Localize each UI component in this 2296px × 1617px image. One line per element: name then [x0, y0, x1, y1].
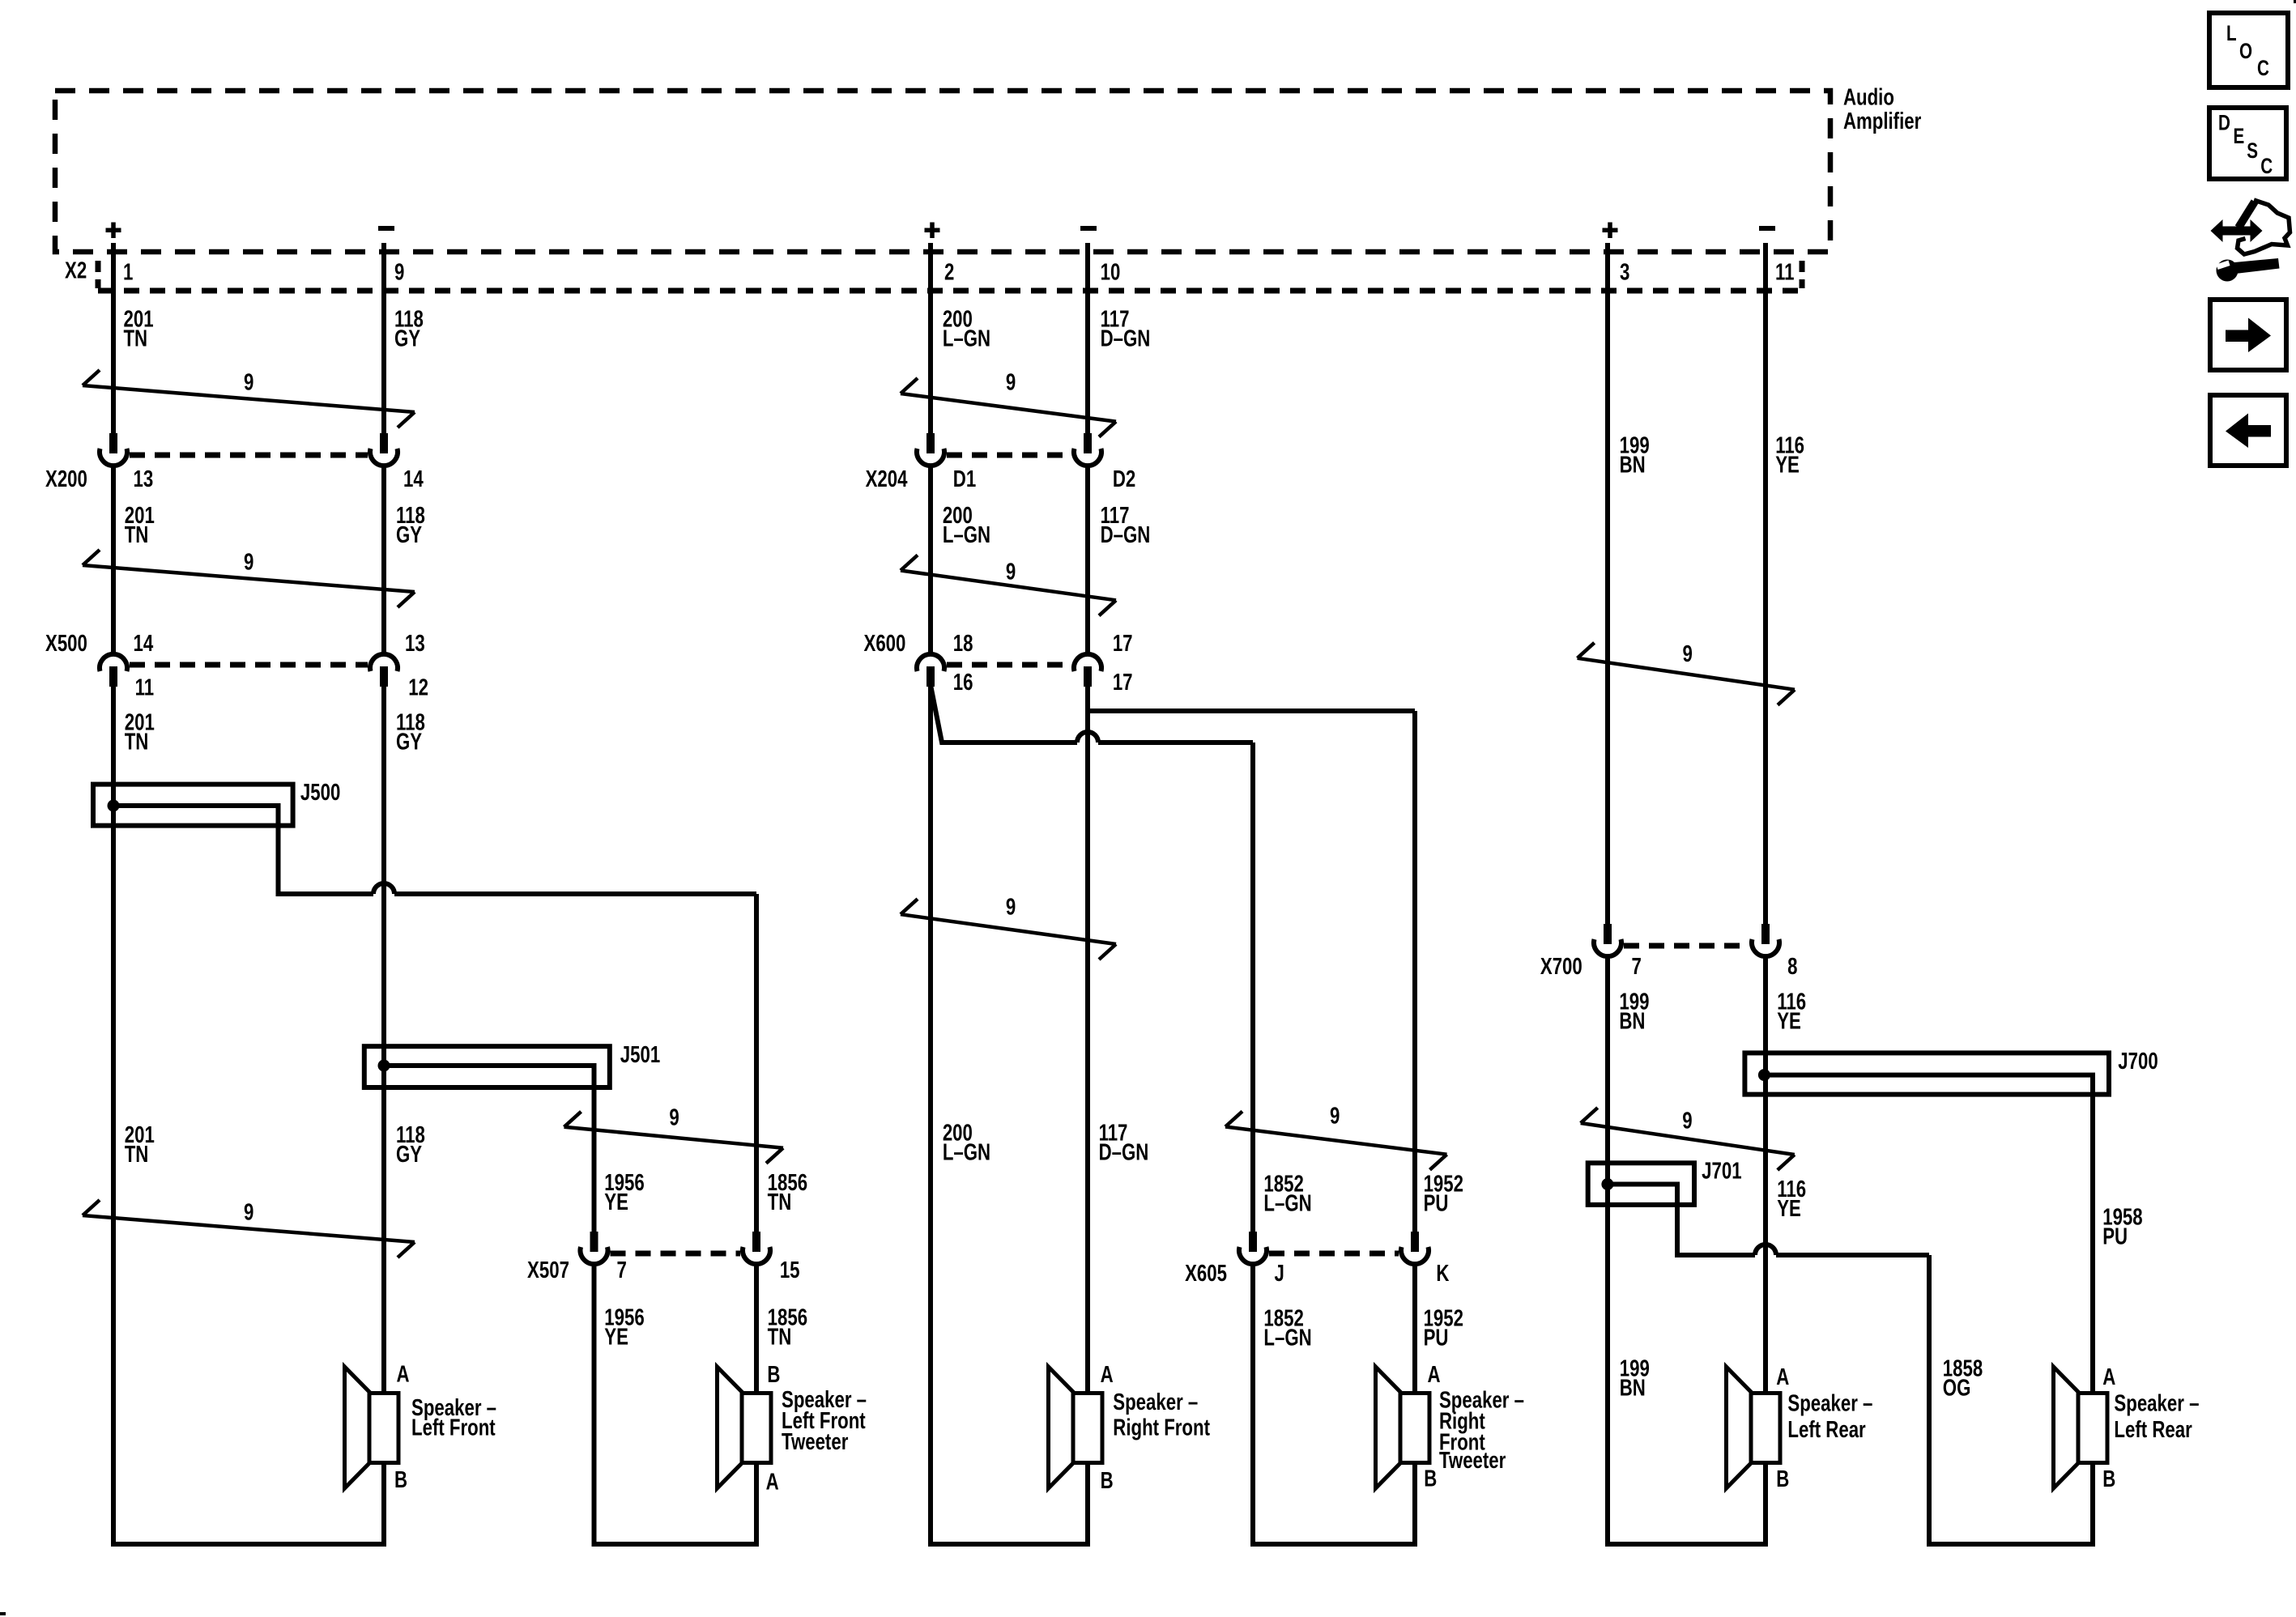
- svg-text:A: A: [397, 1362, 410, 1387]
- pin A: [397, 1362, 410, 1387]
- wire 200 L-GN seg3 + bottom loop to speaker B: [931, 685, 1088, 1544]
- svg-text:Audio: Audio: [1843, 85, 1894, 110]
- label 201 TN: [123, 307, 153, 351]
- label J700: [2118, 1049, 2158, 1074]
- svg-text:TN: TN: [125, 1143, 149, 1168]
- svg-text:Tweeter: Tweeter: [782, 1429, 848, 1454]
- svg-text:L: L: [2226, 22, 2237, 46]
- label 1852 L-GN: [1263, 1306, 1311, 1351]
- twisted pair marker 9 (mid seg1): [901, 370, 1116, 436]
- svg-text:12: 12: [408, 675, 428, 700]
- label X600: [863, 631, 905, 656]
- svg-text:BN: BN: [1619, 1009, 1645, 1034]
- svg-text:PU: PU: [1424, 1191, 1449, 1216]
- icon forward arrow box: [2210, 300, 2286, 370]
- pin 11: [1775, 260, 1794, 285]
- wire 116 YE seg2 (X700 to speaker A): [1763, 955, 1768, 1391]
- pin 7: [617, 1257, 627, 1283]
- speaker - right front tweeter: [1376, 1367, 1430, 1488]
- wire 201 TN seg2 (X200 to X500): [111, 465, 116, 653]
- wire 117 D-GN seg3 (X600 to speaker A): [1085, 685, 1090, 1391]
- connector X600 pin 17 terminal: [1074, 654, 1101, 687]
- label 199 BN: [1620, 433, 1650, 478]
- svg-text:X500: X500: [45, 631, 87, 656]
- connector X507 pin 15 terminal: [743, 1232, 770, 1264]
- svg-text:BN: BN: [1620, 453, 1646, 478]
- svg-text:7: 7: [617, 1257, 627, 1283]
- connector X507 dotted line: [611, 1251, 741, 1257]
- svg-text:E: E: [2234, 124, 2245, 148]
- svg-text:Right Front: Right Front: [1113, 1415, 1210, 1440]
- twisted pair marker 9 (left seg1): [83, 370, 415, 428]
- amp pin + (right front): [925, 223, 940, 239]
- connector X700 pin 7 terminal: [1594, 924, 1621, 956]
- icon connector-view (double arrow, outline, wrench): [2211, 200, 2290, 282]
- svg-text:TN: TN: [125, 523, 149, 548]
- label 1858 OG: [1943, 1356, 1983, 1401]
- svg-text:YE: YE: [604, 1189, 628, 1215]
- svg-text:9: 9: [1006, 370, 1016, 395]
- svg-text:A: A: [1428, 1362, 1441, 1387]
- label 201 TN: [125, 504, 155, 548]
- pin D1: [953, 466, 976, 491]
- svg-text:14: 14: [134, 631, 154, 656]
- amp pin - (left front): [378, 226, 394, 231]
- svg-text:D–GN: D–GN: [1099, 1140, 1149, 1165]
- twisted pair marker 9 (left tweeter): [564, 1105, 784, 1164]
- svg-text:18: 18: [953, 631, 973, 656]
- svg-text:B: B: [767, 1363, 780, 1388]
- label Speaker - Right Front Tweeter: [1439, 1388, 1524, 1474]
- label Speaker - Right Front: [1113, 1389, 1210, 1440]
- wire 117 D-GN seg1 (X2 to X204): [1085, 243, 1090, 433]
- wire 1952 PU seg2 (X605 to tweeter A): [1412, 1263, 1417, 1391]
- pin 17: [1113, 631, 1133, 656]
- svg-text:Left Rear: Left Rear: [1787, 1417, 1865, 1442]
- label 201 TN: [125, 1123, 155, 1168]
- wire 1852 L-GN seg2 + bottom loop to tweeter B: [1253, 1263, 1415, 1544]
- label X700: [1540, 955, 1582, 980]
- label Speaker - Left Front Tweeter: [782, 1387, 867, 1454]
- icon DESC box: [2209, 108, 2286, 179]
- pin 3: [1620, 260, 1629, 285]
- pin 8: [1787, 955, 1797, 980]
- pin K: [1436, 1261, 1450, 1286]
- wire 200 L-GN seg2 (X204 to X600): [928, 465, 933, 653]
- speaker - right front: [1049, 1367, 1103, 1488]
- svg-text:7: 7: [1632, 955, 1642, 980]
- svg-text:9: 9: [244, 1200, 253, 1225]
- svg-text:B: B: [1101, 1468, 1114, 1493]
- pin 13: [134, 466, 154, 491]
- pin 11: [135, 675, 154, 700]
- label X204: [866, 466, 909, 491]
- svg-text:J500: J500: [300, 781, 340, 806]
- svg-text:Speaker –: Speaker –: [2114, 1391, 2199, 1416]
- pin B: [1101, 1468, 1114, 1493]
- label 200 L-GN: [943, 504, 990, 548]
- svg-text:11: 11: [135, 675, 154, 700]
- connector X200 pin 14 terminal: [370, 433, 398, 466]
- wire 1858 OG (J701 tap): [1612, 1185, 1929, 1256]
- svg-text:8: 8: [1787, 955, 1797, 980]
- pin 18: [953, 631, 973, 656]
- connector X200 pin 13 terminal: [100, 433, 127, 466]
- pin A: [2102, 1364, 2115, 1389]
- wire 118 GY seg3 (X500 to speaker A): [381, 685, 386, 1391]
- svg-text:9: 9: [1006, 560, 1016, 585]
- label 199 BN: [1619, 989, 1649, 1034]
- pin 14: [134, 631, 154, 656]
- label 1852 L-GN: [1263, 1172, 1311, 1216]
- svg-text:YE: YE: [604, 1325, 628, 1350]
- svg-text:B: B: [1424, 1466, 1437, 1491]
- pin 10: [1101, 260, 1121, 285]
- label 117 D-GN: [1101, 307, 1151, 351]
- label 117 D-GN: [1099, 1121, 1149, 1165]
- svg-text:10: 10: [1101, 260, 1121, 285]
- svg-text:J: J: [1274, 1261, 1284, 1286]
- svg-text:J501: J501: [620, 1042, 660, 1067]
- svg-text:9: 9: [1330, 1104, 1340, 1129]
- connector X605 pin J terminal: [1239, 1232, 1267, 1264]
- wire 118 GY seg1 (X2 to X200): [381, 243, 386, 433]
- pin 13: [405, 631, 425, 656]
- pin 15: [780, 1257, 800, 1283]
- svg-text:TN: TN: [768, 1325, 792, 1350]
- connector X600 pin 18 terminal: [917, 654, 944, 687]
- twisted pair marker 9 (left seg4): [83, 1200, 415, 1257]
- svg-text:2: 2: [944, 260, 954, 285]
- speaker - left front: [345, 1367, 399, 1488]
- wire J500 tap to 1856 TN: [118, 806, 756, 894]
- splice J701: [1588, 1163, 1694, 1205]
- wire 116 YE seg1 (X2 to X700): [1763, 243, 1768, 924]
- label J500: [300, 781, 340, 806]
- svg-text:X507: X507: [527, 1257, 569, 1283]
- svg-text:9: 9: [394, 260, 404, 285]
- svg-text:PU: PU: [2102, 1224, 2128, 1249]
- svg-text:9: 9: [244, 550, 253, 575]
- connector X204 pin D2 terminal: [1074, 433, 1101, 466]
- wire 1852 L-GN seg1 (to X605): [1250, 743, 1255, 1232]
- twisted pair marker 9 (mid seg3): [901, 895, 1116, 960]
- svg-text:B: B: [2102, 1466, 2115, 1491]
- pin 7: [1632, 955, 1642, 980]
- svg-text:Left Rear: Left Rear: [2114, 1417, 2192, 1442]
- svg-text:9: 9: [1682, 1108, 1692, 1134]
- pin B: [1776, 1466, 1789, 1491]
- label J701: [1702, 1159, 1741, 1184]
- speaker - left front tweeter: [718, 1367, 772, 1488]
- twisted pair marker 9 (right tweeter): [1225, 1104, 1447, 1170]
- amp pin - (rear): [1759, 226, 1775, 231]
- pin A: [1776, 1364, 1789, 1389]
- label Audio Amplifier: [1843, 85, 1921, 134]
- connector X605 dotted line: [1269, 1251, 1399, 1257]
- connector X600 dotted line: [947, 662, 1071, 668]
- pin 9: [394, 260, 404, 285]
- audio amplifier box (dashed): [55, 91, 1830, 252]
- pin 16: [953, 670, 973, 695]
- connector X500 pin 14 terminal: [100, 654, 127, 687]
- svg-text:3: 3: [1620, 260, 1629, 285]
- svg-text:OG: OG: [1943, 1376, 1971, 1401]
- pin D2: [1113, 466, 1135, 491]
- amp pin + (left front): [106, 223, 121, 239]
- svg-text:GY: GY: [396, 1143, 422, 1168]
- splice J500: [93, 785, 293, 826]
- wire 1856 TN seg2 (X507 to tweeter B): [754, 1263, 759, 1391]
- svg-text:D: D: [2218, 111, 2230, 135]
- svg-text:X605: X605: [1185, 1261, 1227, 1286]
- connector X700 dotted line: [1624, 943, 1749, 949]
- svg-text:A: A: [1776, 1364, 1789, 1389]
- svg-text:B: B: [1776, 1466, 1789, 1491]
- svg-text:YE: YE: [1775, 453, 1800, 478]
- label X605: [1185, 1261, 1227, 1286]
- label 118 GY: [394, 307, 424, 351]
- label 1958 PU: [2102, 1205, 2142, 1249]
- label 1952 PU: [1424, 1172, 1463, 1216]
- pin 14: [403, 466, 424, 491]
- wire 1858 OG seg2 + bottom loop to speaker B: [1929, 1255, 2093, 1544]
- svg-text:O: O: [2239, 40, 2252, 64]
- connector X500 pin 13 terminal: [370, 654, 398, 687]
- speaker - left rear (right): [2054, 1367, 2108, 1488]
- label X507: [527, 1257, 569, 1283]
- label X500: [45, 631, 87, 656]
- svg-text:C: C: [2257, 57, 2269, 81]
- svg-text:X200: X200: [45, 466, 87, 491]
- amp pin - (right front): [1080, 226, 1097, 231]
- label 1856 TN: [768, 1170, 807, 1215]
- pin B: [767, 1363, 780, 1388]
- speaker - left rear: [1727, 1367, 1781, 1488]
- svg-text:D1: D1: [953, 466, 976, 491]
- svg-text:GY: GY: [394, 326, 420, 351]
- svg-text:D–GN: D–GN: [1101, 326, 1151, 351]
- label 117 D-GN: [1101, 504, 1151, 548]
- icon LOC box: [2209, 13, 2288, 87]
- label 201 TN: [125, 710, 155, 755]
- connector X507 pin 7 terminal: [581, 1232, 608, 1264]
- pin B: [1424, 1466, 1437, 1491]
- svg-text:Speaker –: Speaker –: [1787, 1391, 1872, 1416]
- pin 17: [1113, 670, 1133, 695]
- svg-text:9: 9: [1683, 642, 1693, 667]
- pin B: [2102, 1466, 2115, 1491]
- label 116 YE: [1775, 433, 1804, 478]
- connector X2 (dotted line): [98, 261, 1802, 291]
- connector X500 dotted line: [130, 662, 368, 668]
- svg-text:9: 9: [1006, 895, 1016, 920]
- svg-text:L–GN: L–GN: [943, 1140, 990, 1165]
- wire 1856 TN seg1 (to X507): [754, 894, 759, 1232]
- label 118 GY: [396, 504, 425, 548]
- svg-text:YE: YE: [1777, 1009, 1801, 1034]
- svg-text:13: 13: [134, 466, 154, 491]
- svg-text:Amplifier: Amplifier: [1843, 109, 1921, 134]
- label J501: [620, 1042, 660, 1067]
- label 116 YE: [1777, 989, 1806, 1034]
- connector X200 dotted line: [130, 453, 368, 458]
- icon back arrow box: [2210, 395, 2286, 466]
- twisted pair marker 9 (rear seg1): [1578, 642, 1795, 705]
- svg-text:A: A: [766, 1470, 779, 1495]
- wire 1952 PU seg1 (to X605): [1412, 711, 1417, 1232]
- pin 2: [944, 260, 954, 285]
- svg-text:D–GN: D–GN: [1101, 523, 1151, 548]
- label 1956 YE: [604, 1305, 644, 1350]
- page corner mark top-right: [2294, 0, 2296, 3]
- label 118 GY: [396, 710, 425, 755]
- label X2: [65, 258, 87, 283]
- svg-text:J701: J701: [1702, 1159, 1741, 1184]
- svg-text:14: 14: [403, 466, 424, 491]
- pin A: [1101, 1362, 1114, 1387]
- svg-text:X2: X2: [65, 258, 87, 283]
- pin A: [1428, 1362, 1441, 1387]
- svg-text:A: A: [1101, 1362, 1114, 1387]
- connector X700 pin 8 terminal: [1752, 924, 1779, 956]
- svg-text:TN: TN: [768, 1189, 792, 1215]
- amp pin + (rear): [1603, 223, 1618, 239]
- splice J700: [1744, 1053, 2109, 1094]
- wire 1952 branch from X600 pin 17: [1088, 709, 1415, 713]
- label 118 GY: [396, 1123, 425, 1168]
- label Speaker - Left Rear: [2114, 1391, 2199, 1443]
- wire 201 TN seg3 + bottom loop to speaker B: [113, 685, 384, 1544]
- svg-text:17: 17: [1113, 631, 1133, 656]
- svg-text:Left Front: Left Front: [411, 1415, 496, 1440]
- wire 117 D-GN seg2 (X204 to X600): [1085, 465, 1090, 653]
- label 199 BN: [1620, 1356, 1650, 1401]
- label 1956 YE: [604, 1170, 644, 1215]
- pin 1: [123, 260, 133, 285]
- wire 199 BN seg2 + bottom loop to speaker B: [1608, 955, 1766, 1544]
- connector X605 pin K terminal: [1401, 1232, 1429, 1264]
- label 1952 PU: [1424, 1306, 1463, 1351]
- svg-text:L–GN: L–GN: [943, 326, 990, 351]
- svg-text:11: 11: [1775, 260, 1794, 285]
- svg-text:Tweeter: Tweeter: [1439, 1448, 1506, 1473]
- pin 12: [408, 675, 428, 700]
- svg-text:YE: YE: [1777, 1196, 1801, 1221]
- svg-text:1: 1: [123, 260, 133, 285]
- svg-text:L–GN: L–GN: [1263, 1326, 1311, 1351]
- wire 118 GY seg2 (X200 to X500): [381, 465, 386, 653]
- svg-text:K: K: [1436, 1261, 1450, 1286]
- wire 1852 branch from X600 pin 16: [931, 685, 1253, 743]
- svg-text:X204: X204: [866, 466, 909, 491]
- svg-text:GY: GY: [396, 730, 422, 755]
- svg-text:B: B: [394, 1467, 407, 1492]
- label X200: [45, 466, 87, 491]
- twisted pair marker 9 (rear seg2): [1581, 1108, 1795, 1170]
- pin B: [394, 1467, 407, 1492]
- svg-text:GY: GY: [396, 523, 422, 548]
- pin J: [1274, 1261, 1284, 1286]
- twisted pair marker 9 (left seg2): [83, 550, 415, 607]
- svg-text:A: A: [2102, 1364, 2115, 1389]
- svg-text:BN: BN: [1620, 1376, 1646, 1401]
- connector X204 dotted line: [947, 453, 1071, 458]
- wire 1958 PU (J700 tap to speaker A): [1770, 1075, 2093, 1391]
- twisted pair marker 9 (mid seg2): [901, 555, 1116, 616]
- svg-text:13: 13: [405, 631, 425, 656]
- pin A: [766, 1470, 779, 1495]
- svg-text:9: 9: [244, 370, 253, 395]
- wire 1956 YE seg1 (J501 to X507): [389, 1066, 594, 1232]
- svg-text:D2: D2: [1113, 466, 1135, 491]
- svg-text:X700: X700: [1540, 955, 1582, 980]
- svg-text:L–GN: L–GN: [943, 523, 990, 548]
- label 1856 TN: [768, 1305, 807, 1350]
- svg-text:15: 15: [780, 1257, 800, 1283]
- wire 199 BN seg1 (X2 to X700): [1605, 243, 1610, 924]
- label 116 YE: [1777, 1177, 1806, 1221]
- label Speaker - Left Rear: [1787, 1391, 1872, 1443]
- svg-text:TN: TN: [123, 326, 147, 351]
- label 200 L-GN: [943, 307, 990, 351]
- wire 201 TN seg1 (X2 to X200): [111, 243, 116, 433]
- label 200 L-GN: [943, 1121, 990, 1165]
- svg-text:J700: J700: [2118, 1049, 2158, 1074]
- svg-text:9: 9: [669, 1105, 679, 1130]
- svg-text:X600: X600: [863, 631, 905, 656]
- wire 200 L-GN seg1 (X2 to X204): [928, 243, 933, 433]
- svg-text:16: 16: [953, 670, 973, 695]
- label Speaker - Left Front: [411, 1395, 496, 1440]
- splice J501: [364, 1046, 610, 1087]
- svg-text:Speaker –: Speaker –: [1113, 1389, 1198, 1415]
- wire 1956 YE seg2 + bottom loop to tweeter A: [594, 1263, 757, 1544]
- svg-text:L–GN: L–GN: [1263, 1191, 1311, 1216]
- svg-text:TN: TN: [125, 730, 149, 755]
- svg-text:S: S: [2247, 139, 2258, 164]
- connector X204 pin D1 terminal: [917, 433, 944, 466]
- svg-text:C: C: [2260, 154, 2273, 178]
- svg-text:17: 17: [1113, 670, 1133, 695]
- page corner mark bottom-left: [0, 1612, 6, 1615]
- svg-text:PU: PU: [1424, 1326, 1449, 1351]
